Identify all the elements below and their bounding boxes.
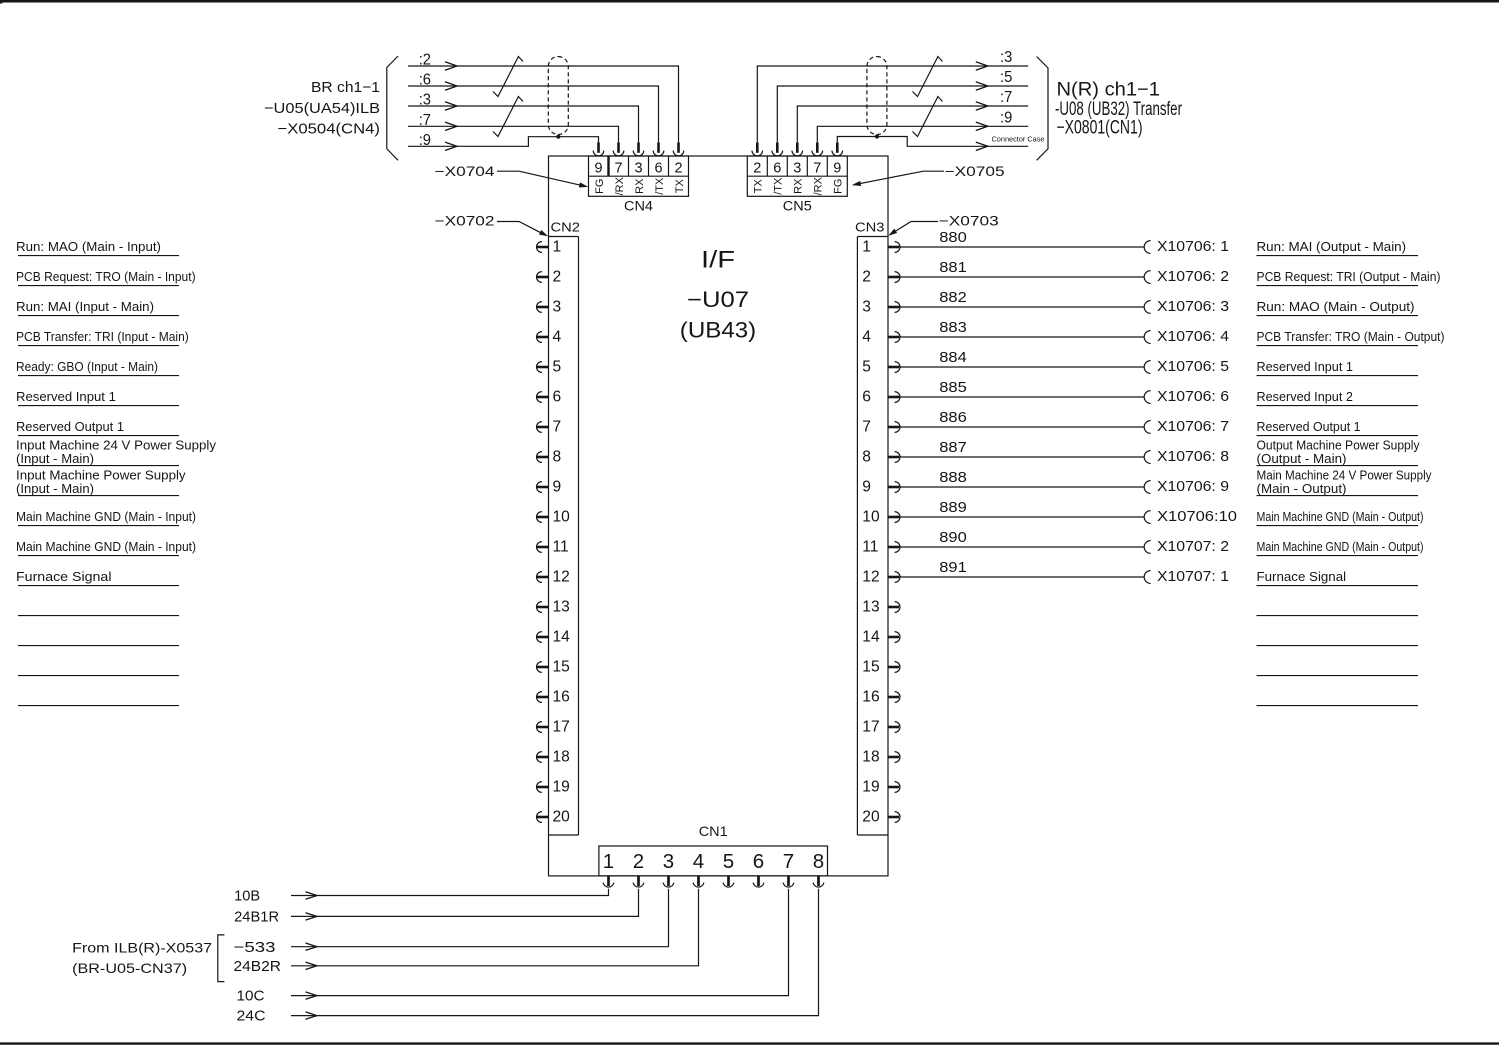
svg-text:X10706: 9: X10706: 9	[1157, 479, 1229, 495]
svg-text:9: 9	[594, 161, 602, 177]
svg-text:886: 886	[939, 409, 967, 426]
svg-text:(Output - Main): (Output - Main)	[1257, 451, 1347, 466]
svg-text:14: 14	[553, 628, 571, 645]
svg-text:(UB43): (UB43)	[680, 317, 756, 342]
svg-text:1: 1	[603, 850, 614, 873]
svg-text:(Main - Output): (Main - Output)	[1257, 481, 1347, 496]
svg-text:889: 889	[939, 499, 967, 516]
svg-text:15: 15	[553, 658, 571, 675]
svg-text:X10706: 4: X10706: 4	[1157, 329, 1229, 345]
svg-text:I/F: I/F	[701, 247, 735, 274]
svg-text::7: :7	[1000, 89, 1012, 106]
svg-text:15: 15	[862, 658, 880, 675]
svg-text:Reserved Input 1: Reserved Input 1	[16, 389, 116, 404]
svg-text:/RX: /RX	[813, 176, 825, 195]
svg-text:3: 3	[793, 161, 801, 177]
svg-text:Main Machine GND (Main - Outpu: Main Machine GND (Main - Output)	[1257, 509, 1424, 524]
svg-text:Ready: GBO (Input - Main): Ready: GBO (Input - Main)	[16, 359, 158, 374]
svg-text:CN1: CN1	[699, 823, 728, 839]
svg-text:2: 2	[553, 268, 562, 285]
svg-text:13: 13	[862, 598, 879, 615]
svg-text:17: 17	[553, 718, 570, 735]
svg-text:CN4: CN4	[624, 198, 654, 213]
svg-text:2: 2	[674, 161, 682, 177]
svg-text:Main Machine GND (Main - Input: Main Machine GND (Main - Input)	[16, 539, 196, 554]
svg-text:8: 8	[862, 448, 871, 465]
svg-text:From ILB(R)-X0537: From ILB(R)-X0537	[72, 940, 212, 956]
svg-text:16: 16	[862, 688, 879, 705]
svg-text:10B: 10B	[234, 888, 260, 905]
svg-text:8: 8	[813, 850, 824, 873]
svg-text:6: 6	[773, 161, 781, 177]
svg-text:7: 7	[614, 161, 622, 177]
svg-text:FG: FG	[594, 179, 606, 194]
svg-text:1: 1	[862, 238, 871, 255]
svg-text:12: 12	[862, 568, 879, 585]
svg-text::5: :5	[1000, 69, 1012, 86]
svg-text:Reserved Input 1: Reserved Input 1	[1257, 359, 1353, 374]
svg-text:2: 2	[753, 161, 761, 177]
svg-text:24B1R: 24B1R	[234, 909, 279, 926]
svg-text:X10707: 2: X10707: 2	[1157, 539, 1229, 555]
svg-text:CN5: CN5	[783, 198, 812, 213]
svg-text:Main Machine GND (Main - Outpu: Main Machine GND (Main - Output)	[1257, 539, 1424, 554]
svg-text:−X0704: −X0704	[435, 163, 495, 179]
svg-text:882: 882	[939, 289, 967, 306]
svg-text:11: 11	[553, 538, 569, 555]
svg-text:Run: MAO (Main - Output): Run: MAO (Main - Output)	[1257, 299, 1415, 314]
svg-text:−U05(UA54)ILB: −U05(UA54)ILB	[264, 100, 380, 117]
svg-text:/TX: /TX	[773, 177, 785, 195]
svg-text:Reserved Input 2: Reserved Input 2	[1257, 389, 1353, 404]
svg-text:17: 17	[862, 718, 879, 735]
svg-text:X10706: 8: X10706: 8	[1157, 449, 1229, 465]
svg-text:3: 3	[862, 298, 871, 315]
svg-text:12: 12	[553, 568, 570, 585]
svg-text:20: 20	[862, 808, 880, 825]
svg-text:4: 4	[693, 850, 704, 873]
svg-text:16: 16	[553, 688, 570, 705]
svg-text:2: 2	[862, 268, 871, 285]
svg-text:/RX: /RX	[614, 176, 626, 195]
svg-text:7: 7	[862, 418, 871, 435]
svg-text:3: 3	[553, 298, 562, 315]
svg-text:10C: 10C	[237, 988, 265, 1005]
svg-text:4: 4	[862, 328, 871, 345]
svg-text:−U07: −U07	[687, 287, 749, 312]
svg-text:7: 7	[813, 161, 821, 177]
svg-text:884: 884	[939, 349, 967, 366]
svg-text:2: 2	[633, 850, 644, 873]
svg-text:Main Machine GND (Main - Input: Main Machine GND (Main - Input)	[16, 509, 196, 524]
svg-text:PCB Request: TRO (Main - Input: PCB Request: TRO (Main - Input)	[16, 269, 196, 284]
svg-text:11: 11	[862, 538, 878, 555]
svg-text:Connector Case: Connector Case	[992, 134, 1045, 143]
svg-text:5: 5	[723, 850, 734, 873]
svg-text::9: :9	[1000, 109, 1012, 126]
svg-text:N(R) ch1−1: N(R) ch1−1	[1057, 79, 1161, 100]
svg-text:X10706: 6: X10706: 6	[1157, 389, 1229, 405]
svg-text:Reserved Output 1: Reserved Output 1	[1257, 419, 1361, 434]
svg-text:RX: RX	[634, 178, 646, 194]
svg-text::3: :3	[1000, 49, 1012, 66]
svg-text:6: 6	[654, 161, 662, 177]
svg-text:9: 9	[553, 478, 562, 495]
svg-text:24B2R: 24B2R	[234, 958, 282, 975]
svg-text:6: 6	[862, 388, 871, 405]
svg-text:PCB Transfer: TRO (Main - Outp: PCB Transfer: TRO (Main - Output)	[1257, 329, 1445, 344]
svg-text:TX: TX	[674, 179, 686, 194]
svg-text:Run: MAO (Main - Input): Run: MAO (Main - Input)	[16, 239, 161, 254]
svg-text:BR ch1−1: BR ch1−1	[311, 79, 380, 96]
svg-text:18: 18	[862, 748, 879, 765]
svg-text:890: 890	[939, 529, 967, 546]
svg-text:−X0705: −X0705	[945, 163, 1005, 179]
svg-text:9: 9	[833, 161, 841, 177]
svg-text:885: 885	[939, 379, 967, 396]
svg-text:-U08 (UB32) Transfer: -U08 (UB32) Transfer	[1055, 99, 1182, 120]
svg-text:5: 5	[862, 358, 871, 375]
svg-text:6: 6	[753, 850, 764, 873]
svg-text:(Input - Main): (Input - Main)	[16, 451, 94, 466]
svg-text:X10706:10: X10706:10	[1157, 509, 1237, 525]
svg-text:Run: MAI (Output - Main): Run: MAI (Output - Main)	[1257, 239, 1407, 254]
svg-text:24C: 24C	[237, 1008, 266, 1025]
svg-text:PCB Request: TRI (Output - Mai: PCB Request: TRI (Output - Main)	[1257, 269, 1441, 284]
svg-text:10: 10	[862, 508, 880, 525]
svg-text:9: 9	[862, 478, 871, 495]
svg-text:X10706: 1: X10706: 1	[1157, 239, 1229, 255]
svg-text:Furnace Signal: Furnace Signal	[1257, 569, 1347, 584]
svg-text:20: 20	[553, 808, 571, 825]
svg-text:19: 19	[862, 778, 879, 795]
svg-text:8: 8	[553, 448, 562, 465]
svg-text:1: 1	[553, 238, 562, 255]
svg-text:4: 4	[553, 328, 562, 345]
svg-text:19: 19	[553, 778, 570, 795]
svg-text:FG: FG	[833, 179, 845, 194]
svg-text:(Input - Main): (Input - Main)	[16, 481, 94, 496]
svg-text:−X0703: −X0703	[939, 213, 999, 229]
svg-text:X10706: 7: X10706: 7	[1157, 419, 1229, 435]
svg-text:14: 14	[862, 628, 880, 645]
svg-text:6: 6	[553, 388, 562, 405]
svg-text:CN3: CN3	[855, 220, 885, 235]
svg-text:−X0801(CN1): −X0801(CN1)	[1057, 118, 1143, 139]
svg-text:880: 880	[939, 229, 967, 246]
svg-text:888: 888	[939, 469, 967, 486]
svg-text:X10706: 5: X10706: 5	[1157, 359, 1229, 375]
svg-text:13: 13	[553, 598, 570, 615]
svg-text:7: 7	[783, 850, 794, 873]
svg-text:PCB Transfer: TRI (Input - Mai: PCB Transfer: TRI (Input - Main)	[16, 329, 189, 344]
svg-text:CN2: CN2	[551, 220, 581, 235]
svg-text:Furnace Signal: Furnace Signal	[16, 569, 112, 584]
svg-text:887: 887	[939, 439, 967, 456]
svg-text:−533: −533	[234, 939, 276, 956]
svg-text:−X0504(CN4): −X0504(CN4)	[278, 121, 381, 138]
svg-text:/TX: /TX	[654, 177, 666, 195]
svg-text:TX: TX	[753, 179, 765, 194]
svg-text:7: 7	[553, 418, 562, 435]
svg-text:881: 881	[939, 259, 967, 276]
svg-text:883: 883	[939, 319, 967, 336]
svg-text:10: 10	[553, 508, 571, 525]
svg-text:(BR-U05-CN37): (BR-U05-CN37)	[72, 960, 187, 976]
svg-text:−X0702: −X0702	[435, 213, 495, 229]
svg-text:Run: MAI (Input - Main): Run: MAI (Input - Main)	[16, 299, 154, 314]
svg-text:891: 891	[939, 559, 967, 576]
svg-text:X10707: 1: X10707: 1	[1157, 569, 1229, 585]
svg-text:X10706: 3: X10706: 3	[1157, 299, 1229, 315]
svg-text:Reserved Output 1: Reserved Output 1	[16, 419, 124, 434]
svg-text:3: 3	[663, 850, 674, 873]
svg-text:18: 18	[553, 748, 570, 765]
svg-text:3: 3	[634, 161, 642, 177]
svg-text:5: 5	[553, 358, 562, 375]
svg-text:X10706: 2: X10706: 2	[1157, 269, 1229, 285]
svg-text:RX: RX	[793, 178, 805, 194]
